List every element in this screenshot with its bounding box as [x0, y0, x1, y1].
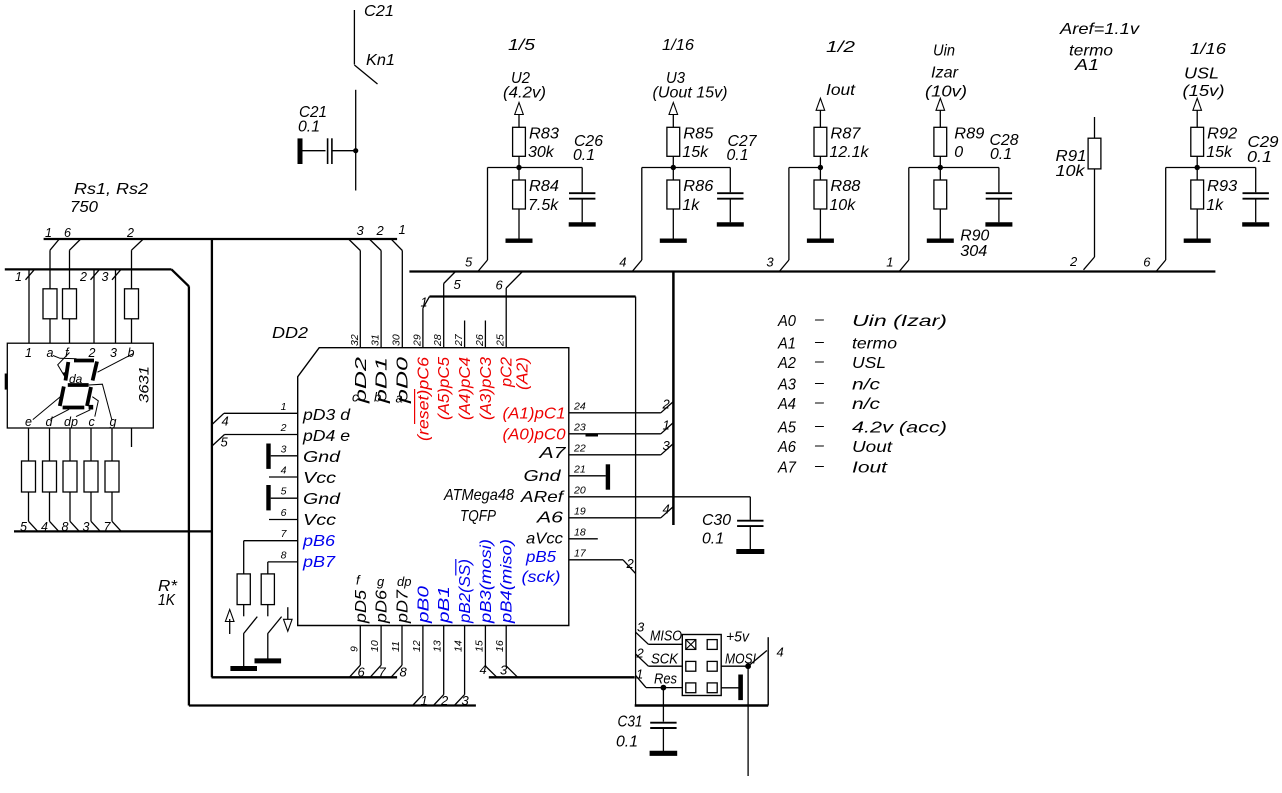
svg-text:pB6: pB6: [302, 533, 335, 550]
svg-text:aVcc: aVcc: [526, 531, 563, 548]
svg-text:(10v): (10v): [925, 84, 967, 101]
svg-text:n/c: n/c: [852, 377, 880, 394]
svg-text:R86: R86: [683, 178, 713, 195]
svg-text:–: –: [814, 394, 824, 411]
svg-text:A6: A6: [777, 439, 796, 456]
svg-text:2: 2: [126, 226, 134, 240]
svg-text:MOSI: MOSI: [725, 650, 756, 667]
svg-text:5: 5: [281, 486, 287, 498]
svg-text:5: 5: [465, 255, 473, 270]
svg-text:b: b: [374, 390, 381, 405]
svg-text:pD6: pD6: [374, 590, 391, 624]
svg-text:26: 26: [474, 334, 486, 347]
svg-text:4: 4: [619, 255, 626, 270]
svg-text:30: 30: [391, 334, 403, 346]
svg-text:30k: 30k: [528, 144, 555, 161]
svg-text:1: 1: [25, 346, 32, 360]
svg-text:6: 6: [64, 226, 71, 240]
svg-text:dp: dp: [397, 574, 411, 589]
svg-text:15: 15: [473, 640, 485, 652]
svg-text:R93: R93: [1207, 178, 1237, 195]
svg-text:–: –: [814, 418, 824, 435]
svg-text:c: c: [352, 390, 359, 405]
svg-text:3: 3: [462, 693, 470, 708]
svg-text:3: 3: [637, 620, 645, 635]
svg-text:750: 750: [70, 199, 98, 216]
svg-text:(15v): (15v): [1183, 83, 1225, 100]
svg-text:14: 14: [453, 640, 465, 652]
svg-text:R90: R90: [960, 228, 989, 245]
svg-text:R92: R92: [1207, 126, 1237, 143]
svg-text:0.1: 0.1: [616, 734, 638, 751]
svg-text:pB5: pB5: [525, 549, 556, 566]
svg-text:2: 2: [626, 556, 635, 571]
svg-text:A1: A1: [1074, 57, 1099, 74]
svg-text:1: 1: [886, 255, 893, 270]
svg-text:A0: A0: [777, 313, 796, 330]
svg-text:A4: A4: [777, 396, 796, 413]
svg-text:13: 13: [432, 640, 444, 652]
svg-text:18: 18: [574, 527, 586, 539]
svg-text:–: –: [814, 334, 824, 351]
svg-text:g: g: [377, 574, 385, 589]
svg-text:pB4(miso): pB4(miso): [499, 539, 516, 624]
svg-text:16: 16: [494, 640, 506, 652]
svg-text:3: 3: [110, 346, 117, 360]
svg-text:pB1: pB1: [436, 586, 453, 624]
svg-text:–: –: [814, 458, 824, 475]
svg-text:Aref=1.1v: Aref=1.1v: [1059, 21, 1140, 38]
svg-text:2: 2: [376, 223, 385, 238]
svg-text:2: 2: [440, 693, 449, 708]
svg-text:20: 20: [573, 485, 586, 497]
svg-text:2: 2: [662, 397, 671, 412]
svg-text:1/16: 1/16: [662, 37, 694, 54]
svg-text:4: 4: [777, 645, 784, 660]
svg-text:(A2): (A2): [515, 357, 532, 390]
svg-text:3: 3: [281, 443, 287, 455]
svg-text:15k: 15k: [682, 144, 709, 161]
svg-text:R89: R89: [954, 126, 984, 143]
svg-text:3: 3: [500, 663, 508, 678]
svg-text:1: 1: [421, 693, 428, 708]
svg-text:(A4)pC4: (A4)pC4: [457, 357, 474, 420]
svg-text:3: 3: [766, 255, 774, 270]
svg-text:C31: C31: [618, 714, 643, 731]
svg-text:Vcc: Vcc: [303, 512, 336, 529]
svg-text:1K: 1K: [158, 592, 176, 609]
svg-text:304: 304: [960, 243, 987, 260]
svg-text:ATMega48: ATMega48: [443, 487, 514, 504]
svg-text:(sck): (sck): [522, 569, 561, 586]
svg-text:C21: C21: [364, 3, 394, 20]
svg-text:3: 3: [102, 270, 109, 284]
svg-text:32: 32: [349, 334, 361, 346]
svg-text:0.1: 0.1: [702, 531, 724, 548]
svg-text:12: 12: [411, 640, 423, 652]
svg-text:1: 1: [15, 270, 22, 284]
svg-text:pB3(mosi): pB3(mosi): [478, 539, 495, 624]
svg-text:(A0)pC0: (A0)pC0: [503, 427, 566, 444]
svg-text:6: 6: [496, 278, 504, 293]
svg-text:ARef: ARef: [520, 489, 565, 506]
svg-text:25: 25: [495, 334, 507, 347]
svg-text:6: 6: [281, 507, 287, 519]
svg-text:R83: R83: [529, 126, 559, 143]
svg-text:3: 3: [663, 438, 671, 453]
svg-text:4: 4: [281, 465, 287, 477]
svg-text:1: 1: [399, 222, 406, 237]
svg-text:R85: R85: [683, 126, 713, 143]
svg-text:pD4 e: pD4 e: [302, 428, 350, 445]
svg-text:27: 27: [453, 333, 465, 347]
svg-text:(A5)pC5: (A5)pC5: [436, 357, 453, 420]
svg-text:USL: USL: [1184, 66, 1219, 83]
svg-text:9: 9: [348, 646, 360, 652]
svg-text:b: b: [128, 346, 135, 360]
svg-text:(reset)pC6: (reset)pC6: [415, 357, 432, 441]
svg-text:Uin: Uin: [933, 43, 955, 60]
svg-text:Iout: Iout: [852, 460, 888, 477]
svg-text:Uout: Uout: [852, 439, 893, 456]
svg-text:10k: 10k: [829, 197, 856, 214]
svg-text:R88: R88: [830, 178, 860, 195]
svg-text:pB7: pB7: [302, 554, 336, 571]
svg-text:1/2: 1/2: [826, 39, 855, 56]
svg-text:1: 1: [281, 401, 287, 413]
svg-text:11: 11: [390, 641, 402, 652]
svg-text:0.1: 0.1: [573, 147, 595, 164]
svg-text:A5: A5: [777, 420, 796, 437]
svg-text:3: 3: [357, 223, 365, 238]
svg-text:12.1k: 12.1k: [829, 144, 869, 161]
svg-text:R87: R87: [830, 126, 861, 143]
svg-text:R84: R84: [529, 178, 559, 195]
svg-text:Kn1: Kn1: [366, 52, 395, 69]
svg-text:1: 1: [636, 667, 643, 682]
svg-text:pD3 d: pD3 d: [302, 407, 351, 424]
svg-text:e: e: [25, 415, 32, 429]
svg-text:–: –: [814, 437, 824, 454]
svg-text:19: 19: [574, 506, 586, 518]
svg-text:2: 2: [636, 646, 645, 661]
svg-text:4: 4: [222, 414, 229, 429]
svg-text:15k: 15k: [1206, 144, 1233, 161]
svg-text:A6: A6: [536, 510, 563, 527]
svg-text:termo: termo: [852, 336, 897, 353]
svg-text:7.5k: 7.5k: [528, 197, 559, 214]
svg-text:A3: A3: [777, 377, 796, 394]
svg-text:A7: A7: [777, 460, 797, 477]
svg-text:Gnd: Gnd: [303, 449, 341, 466]
svg-text:0.1: 0.1: [727, 147, 749, 164]
svg-text:29: 29: [411, 334, 423, 347]
svg-text:–: –: [814, 353, 824, 370]
svg-text:a: a: [47, 346, 54, 360]
svg-text:Gnd: Gnd: [524, 468, 562, 485]
svg-text:4: 4: [480, 662, 487, 677]
svg-text:A7: A7: [538, 445, 567, 462]
svg-text:17: 17: [574, 548, 587, 560]
svg-text:2: 2: [1069, 254, 1078, 269]
svg-text:SCK: SCK: [651, 650, 679, 667]
svg-text:5: 5: [221, 435, 229, 450]
svg-text:pB2(SS): pB2(SS): [457, 559, 474, 624]
svg-text:da: da: [69, 372, 83, 386]
svg-text:c: c: [89, 415, 96, 429]
svg-text:(A1)pC1: (A1)pC1: [503, 406, 566, 423]
svg-text:Gnd: Gnd: [303, 491, 341, 508]
svg-text:–: –: [814, 375, 824, 392]
svg-text:2: 2: [79, 270, 87, 284]
svg-text:1k: 1k: [1206, 197, 1224, 214]
svg-text:2: 2: [280, 422, 287, 434]
svg-text:2: 2: [88, 346, 96, 360]
svg-text:Res: Res: [654, 671, 677, 688]
svg-text:1: 1: [663, 418, 670, 433]
svg-text:0.1: 0.1: [1247, 149, 1272, 166]
svg-text:0.1: 0.1: [990, 146, 1012, 163]
svg-text:1k: 1k: [682, 197, 700, 214]
svg-text:10k: 10k: [1056, 163, 1086, 180]
svg-text:g: g: [110, 415, 117, 429]
svg-text:–: –: [814, 311, 824, 328]
svg-text:23: 23: [573, 422, 586, 434]
svg-text:Iout: Iout: [826, 82, 856, 99]
svg-text:0.1: 0.1: [298, 119, 320, 136]
svg-text:Izar: Izar: [931, 65, 959, 82]
svg-text:C30: C30: [702, 512, 731, 529]
svg-text:0: 0: [954, 144, 963, 161]
svg-text:TQFP: TQFP: [460, 508, 496, 525]
svg-text:10: 10: [369, 640, 381, 652]
svg-text:pD7: pD7: [395, 589, 412, 624]
svg-text:Vcc: Vcc: [303, 470, 336, 487]
svg-text:d: d: [46, 415, 54, 429]
svg-text:8: 8: [281, 549, 287, 561]
svg-text:21: 21: [573, 464, 586, 476]
svg-text:8: 8: [400, 665, 408, 680]
svg-text:28: 28: [432, 334, 444, 347]
svg-text:4: 4: [663, 502, 670, 517]
svg-text:dp: dp: [64, 415, 78, 429]
svg-text:4.2v (acc): 4.2v (acc): [852, 420, 947, 437]
svg-text:1: 1: [45, 226, 52, 240]
svg-text:1: 1: [421, 296, 428, 310]
svg-text:USL: USL: [852, 355, 886, 372]
svg-text:1/5: 1/5: [508, 37, 535, 54]
svg-text:pD5: pD5: [353, 590, 370, 624]
svg-text:+5v: +5v: [726, 629, 750, 646]
svg-text:31: 31: [370, 334, 382, 346]
svg-text:1/16: 1/16: [1190, 41, 1226, 58]
svg-text:3631: 3631: [137, 366, 152, 403]
svg-text:pC2: pC2: [499, 357, 516, 388]
svg-text:a: a: [396, 391, 403, 406]
svg-text:(A3)pC3: (A3)pC3: [478, 357, 495, 420]
svg-text:Rs1, Rs2: Rs1, Rs2: [74, 181, 148, 198]
svg-text:n/c: n/c: [852, 396, 880, 413]
svg-text:Uin (Izar): Uin (Izar): [852, 313, 947, 330]
svg-text:(4.2v): (4.2v): [503, 85, 546, 102]
svg-text:24: 24: [573, 401, 586, 413]
svg-text:5: 5: [454, 277, 462, 292]
svg-text:pB0: pB0: [415, 586, 432, 624]
svg-text:MISO: MISO: [650, 628, 682, 645]
svg-text:22: 22: [573, 443, 586, 455]
svg-text:(Uout 15v): (Uout 15v): [653, 85, 728, 102]
svg-text:A2: A2: [777, 355, 796, 372]
svg-text:DD2: DD2: [272, 325, 308, 342]
svg-text:6: 6: [1143, 255, 1151, 270]
svg-text:A1: A1: [777, 336, 796, 353]
